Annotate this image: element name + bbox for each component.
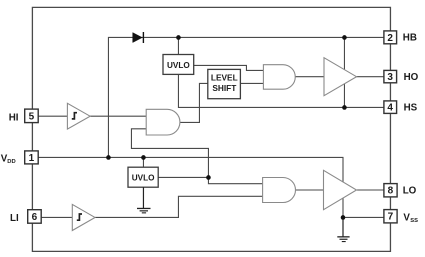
AND gate U3 (low-side AND) (263, 178, 296, 203)
svg-text:6: 6 (32, 212, 38, 223)
svg-text:UVLO: UVLO (167, 61, 190, 70)
pin box 4 (HS) (384, 101, 397, 114)
LEVEL SHIFT block (208, 69, 241, 98)
pin box 3 (HO) (384, 70, 397, 82)
wire HB rail (VDD corner through diode to pin 2) (108, 37, 384, 157)
pin box 6 (LI) (28, 210, 42, 224)
node HS rail junction (342, 105, 347, 110)
svg-text:LEVEL: LEVEL (211, 72, 238, 82)
wire UVLO1 output to AND gate U2 (194, 65, 264, 70)
wire pin 6 LI to buffer B2 (41, 216, 72, 218)
svg-text:SHIFT: SHIFT (212, 83, 236, 93)
wire AND U3 output to driver A2 (295, 189, 323, 191)
pin box 2 (HB) (384, 31, 397, 44)
wire UVLO1 top stem (177, 37, 179, 54)
svg-text:4: 4 (387, 103, 393, 114)
svg-text:LI: LI (10, 213, 19, 224)
svg-text:DD: DD (7, 159, 15, 165)
wire AND U2 output to driver A1 (295, 76, 324, 78)
driver A1 (high-side output driver) (324, 58, 357, 96)
svg-text:8: 8 (388, 186, 394, 197)
svg-text:7: 7 (388, 212, 394, 223)
node HB-UVLO1 junction (176, 35, 181, 40)
schmitt symbol in B2 (77, 214, 82, 220)
svg-text:2: 2 (387, 33, 393, 44)
wire VDD to UVLO2 top stem (142, 157, 144, 167)
pin box 5 (HI) (25, 109, 39, 123)
svg-text:3: 3 (387, 72, 393, 83)
AND gate U1 (high-side input AND) (146, 109, 180, 135)
svg-text:HI: HI (9, 113, 19, 124)
diode D1 (133, 32, 144, 43)
node UVLO2 output junction (206, 175, 211, 180)
ground symbol (UVLO2) (137, 187, 151, 213)
wire AND U1 output to LEVEL SHIFT input (180, 83, 208, 122)
buffer B2 (LI schmitt buffer) (72, 204, 95, 230)
ground symbol (VSS) (337, 217, 349, 241)
node VSS junction (341, 215, 346, 220)
node VDD-UVLO2 junction (141, 155, 146, 160)
svg-text:5: 5 (29, 111, 35, 122)
wire node to AND U3 top input (208, 177, 262, 183)
schmitt symbol in B1 (72, 113, 77, 119)
wire HB-HS vertical through high-side driver (343, 37, 345, 107)
wire buffer B2 output to AND U3 lower input (95, 196, 263, 217)
UVLO block U5 (VDD) (128, 167, 158, 187)
UVLO block U4 (high side) (163, 55, 194, 75)
wire AND U1 lower input from UVLO2 node (131, 129, 208, 178)
wire HS rail (UVLO1 bottom to pin 4) (178, 74, 384, 107)
pin box 7 (VSS) (384, 210, 397, 223)
node VDD-diode junction (106, 155, 111, 160)
node HB rail junction (342, 35, 347, 40)
wire driver A1 output to pin 3 HO (357, 76, 385, 78)
svg-text:HS: HS (404, 102, 418, 113)
buffer B1 (HI schmitt buffer) (67, 103, 90, 129)
wire driver A2 output to pin 8 LO (357, 189, 385, 191)
svg-text:HO: HO (404, 72, 419, 83)
wire UVLO2 output to node (158, 176, 208, 178)
svg-text:SS: SS (410, 218, 418, 224)
pin box 1 (VDD) (25, 151, 39, 164)
pin box 8 (LO) (384, 184, 397, 197)
AND gate U2 (high-side output AND) (263, 65, 295, 90)
wire VDD rail (pin 1 to low-side driver top) (37, 157, 343, 217)
svg-text:UVLO: UVLO (132, 174, 155, 183)
wire VSS line (node to pin 7) (343, 216, 384, 218)
svg-text:HB: HB (403, 33, 417, 44)
wire buffer B1 output to AND U1 top input (90, 115, 146, 117)
wire LEVEL SHIFT output to AND U2 (240, 82, 263, 84)
driver A2 (low-side output driver) (324, 170, 357, 209)
wire pin 5 HI to buffer B1 (37, 115, 67, 117)
IC outline border (32, 7, 390, 251)
svg-text:1: 1 (29, 153, 35, 164)
svg-text:LO: LO (403, 186, 417, 197)
